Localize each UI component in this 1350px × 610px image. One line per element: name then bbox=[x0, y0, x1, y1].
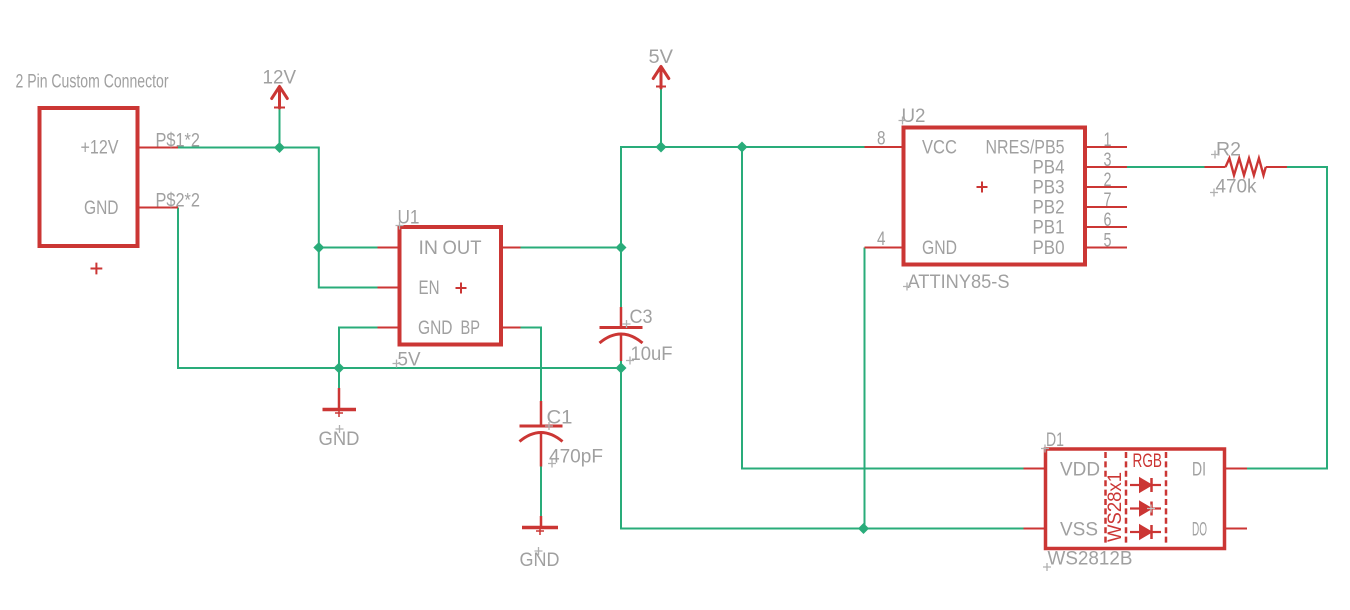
svg-text:PB4: PB4 bbox=[1033, 157, 1065, 179]
origin cross 470k bbox=[1210, 189, 1218, 197]
junction VSS branch bbox=[858, 523, 869, 534]
pin IN stub bbox=[378, 247, 400, 249]
D1 dashed divider 1 bbox=[1104, 452, 1107, 546]
junction OUT line bbox=[616, 242, 627, 253]
svg-text:WS28x1: WS28x1 bbox=[1104, 472, 1126, 542]
pin 6 stub bbox=[1086, 226, 1128, 228]
origin cross WS2812B bbox=[1043, 563, 1051, 571]
svg-text:PB2: PB2 bbox=[1033, 197, 1065, 219]
capacitor C1 bbox=[520, 401, 563, 467]
supply 12V origin dash bbox=[274, 107, 285, 109]
junction 12V bbox=[274, 142, 285, 153]
wire VDD horizontal bbox=[741, 468, 1024, 470]
svg-text:5V: 5V bbox=[398, 349, 421, 371]
svg-text:U2: U2 bbox=[902, 105, 926, 127]
svg-text:VSS: VSS bbox=[1060, 519, 1098, 541]
pin P$2*2 stub bbox=[138, 207, 179, 209]
wire C1 to GND symbol bbox=[540, 447, 542, 516]
pin 7 stub bbox=[1086, 206, 1128, 208]
origin cross GND1 bbox=[336, 425, 344, 433]
pin BP stub bbox=[501, 327, 521, 329]
svg-text:VCC: VCC bbox=[922, 137, 957, 159]
origin cross D1 bbox=[1041, 445, 1049, 453]
wire BP to C1 bbox=[521, 328, 542, 402]
LED module D1 box bbox=[1046, 449, 1225, 549]
pin VDD stub bbox=[1024, 468, 1045, 470]
wire 12V net horizontal from connector bbox=[178, 147, 319, 149]
svg-text:EN: EN bbox=[419, 277, 440, 299]
origin cross U1 bbox=[396, 222, 404, 230]
svg-text:C1: C1 bbox=[547, 407, 573, 429]
wire GND net horizontal (labelled 5V) bbox=[177, 367, 621, 369]
origin cross 470pF bbox=[548, 460, 556, 468]
svg-text:PB1: PB1 bbox=[1033, 217, 1065, 239]
pin 8 VCC stub bbox=[865, 146, 904, 148]
svg-text:NRES/PB5: NRES/PB5 bbox=[986, 137, 1065, 159]
wire VDD vertical bbox=[741, 147, 743, 469]
wire 5V symbol drop bbox=[660, 89, 662, 147]
wire PB4 to R2 bbox=[1127, 166, 1205, 168]
origin cross C3 bbox=[623, 320, 631, 328]
svg-text:7: 7 bbox=[1104, 189, 1112, 211]
wire U2 GND pin down to VSS bbox=[864, 248, 866, 529]
svg-text:4: 4 bbox=[877, 228, 886, 250]
pin OUT stub bbox=[501, 247, 521, 249]
svg-text:RGB: RGB bbox=[1133, 450, 1163, 472]
resistor R2 bbox=[1205, 158, 1288, 175]
junction GND symbol bbox=[334, 363, 345, 374]
pin EN stub bbox=[378, 287, 400, 289]
connector J box bbox=[40, 108, 138, 246]
svg-text:BP: BP bbox=[461, 317, 481, 339]
svg-text:PB3: PB3 bbox=[1033, 177, 1065, 199]
svg-text:GND: GND bbox=[520, 549, 560, 571]
origin cross R2 bbox=[1211, 151, 1219, 159]
pin 1 stub bbox=[1086, 146, 1128, 148]
svg-text:GND: GND bbox=[922, 237, 957, 259]
pin VSS stub bbox=[1024, 528, 1045, 530]
pin GND stub bbox=[378, 327, 400, 329]
D1 dashed divider 2 bbox=[1125, 452, 1128, 546]
svg-text:6: 6 bbox=[1104, 209, 1112, 231]
wire OUT to C3 junction bbox=[521, 247, 622, 249]
pin 2 stub bbox=[1086, 186, 1128, 188]
supply 5V origin dash bbox=[656, 86, 666, 88]
wire U1 GND pin to junction bbox=[339, 328, 378, 369]
svg-text:ATTINY85-S: ATTINY85-S bbox=[908, 271, 1010, 293]
supply symbol 12V arrow bbox=[272, 87, 288, 109]
junction VDD branch bbox=[737, 142, 748, 153]
wire junction to GND symbol bbox=[338, 368, 340, 388]
svg-text:WS2812B: WS2812B bbox=[1048, 548, 1133, 570]
junction 5V symbol bbox=[656, 142, 667, 153]
origin cross U2 bbox=[899, 117, 907, 125]
svg-text:PB0: PB0 bbox=[1033, 237, 1065, 259]
wire 5V rail horizontal to VCC bbox=[620, 146, 865, 148]
connector origin cross bbox=[91, 263, 103, 275]
svg-text:5: 5 bbox=[1104, 230, 1112, 252]
capacitor C3 bbox=[600, 307, 643, 361]
origin cross GND2 bbox=[535, 547, 543, 555]
LED 3 bbox=[1130, 525, 1161, 539]
junction C3 bottom bbox=[616, 363, 627, 374]
supply symbol 5V arrow bbox=[653, 67, 669, 89]
wire R2 to DI bbox=[1247, 167, 1327, 469]
ground symbol GND2 bbox=[522, 516, 558, 535]
svg-text:2 Pin Custom Connector: 2 Pin Custom Connector bbox=[16, 71, 169, 93]
svg-text:P$2*2: P$2*2 bbox=[156, 190, 201, 212]
origin cross C1 bbox=[545, 422, 553, 430]
junction IN line bbox=[313, 242, 324, 253]
svg-text:+12V: +12V bbox=[81, 137, 119, 159]
svg-text:IN: IN bbox=[419, 237, 439, 259]
LED2 origin cross bbox=[1147, 505, 1155, 513]
pin P$1*2 stub bbox=[138, 147, 179, 149]
svg-text:1: 1 bbox=[1104, 129, 1112, 151]
pin 3 stub bbox=[1086, 166, 1128, 168]
regulator U1 box bbox=[400, 227, 502, 345]
LED 2 bbox=[1130, 502, 1161, 516]
svg-text:3: 3 bbox=[1104, 149, 1112, 171]
svg-text:GND: GND bbox=[84, 197, 119, 219]
wire VSS horizontal bbox=[620, 528, 1024, 530]
ground symbol GND1 bbox=[323, 388, 357, 417]
svg-text:P$1*2: P$1*2 bbox=[156, 130, 201, 152]
svg-text:R2: R2 bbox=[1216, 139, 1241, 161]
svg-text:VDD: VDD bbox=[1060, 459, 1100, 481]
wire vertical OUT up to 5V rail and down to C3 bbox=[620, 147, 622, 307]
svg-text:470pF: 470pF bbox=[549, 446, 603, 468]
U2 internal cross bbox=[977, 182, 988, 193]
wire 12V symbol drop bbox=[279, 109, 281, 148]
pin DO stub bbox=[1226, 528, 1248, 530]
svg-text:D1: D1 bbox=[1046, 429, 1064, 451]
svg-text:5V: 5V bbox=[649, 46, 674, 68]
svg-text:C3: C3 bbox=[630, 306, 653, 328]
U1 internal cross bbox=[456, 283, 467, 294]
pin DI stub bbox=[1226, 468, 1248, 470]
MCU U2 box bbox=[904, 128, 1086, 265]
LED 1 bbox=[1130, 478, 1161, 492]
origin cross 10uF bbox=[626, 357, 634, 365]
wire to IN pin bbox=[319, 247, 378, 249]
svg-text:10uF: 10uF bbox=[631, 343, 673, 365]
wire to EN pin bbox=[319, 287, 378, 289]
pin 5 stub bbox=[1086, 247, 1128, 249]
pin 4 GND stub bbox=[865, 247, 904, 249]
svg-text:GND: GND bbox=[418, 317, 453, 339]
svg-text:DO: DO bbox=[1192, 519, 1207, 541]
wire 12V vertical to IN/EN bbox=[318, 147, 320, 289]
svg-text:OUT: OUT bbox=[443, 237, 482, 259]
origin cross ATTINY bbox=[903, 283, 911, 291]
svg-text:2: 2 bbox=[1104, 169, 1112, 191]
origin cross 5V label bbox=[393, 360, 401, 368]
svg-text:12V: 12V bbox=[263, 67, 297, 89]
D1 dashed divider 3 bbox=[1165, 452, 1168, 546]
svg-text:DI: DI bbox=[1192, 459, 1206, 481]
wire connector GND vertical bbox=[177, 208, 179, 369]
svg-text:8: 8 bbox=[877, 128, 886, 150]
wire C3 junction down bbox=[620, 361, 622, 529]
svg-text:470k: 470k bbox=[1216, 176, 1257, 198]
